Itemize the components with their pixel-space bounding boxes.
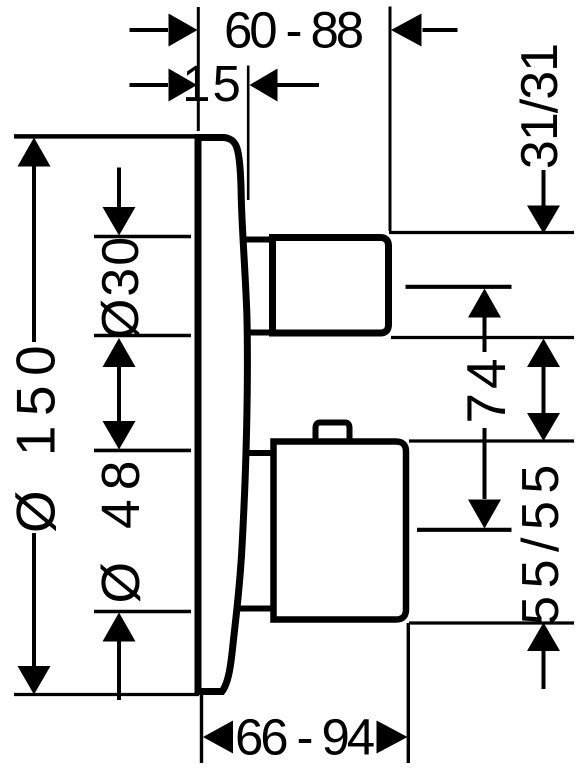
svg-text:55/55: 55/55 xyxy=(512,457,570,625)
svg-text:5: 5 xyxy=(213,55,241,112)
svg-text:Ø 48: Ø 48 xyxy=(92,452,151,604)
svg-text:31/31: 31/31 xyxy=(511,44,569,169)
svg-text:66 - 94: 66 - 94 xyxy=(235,709,374,766)
svg-text:Ø 150: Ø 150 xyxy=(5,336,67,533)
svg-text:Ø30: Ø30 xyxy=(92,235,150,339)
svg-text:1: 1 xyxy=(182,55,210,112)
svg-text:74: 74 xyxy=(455,354,517,423)
svg-text:60 - 88: 60 - 88 xyxy=(224,2,363,59)
